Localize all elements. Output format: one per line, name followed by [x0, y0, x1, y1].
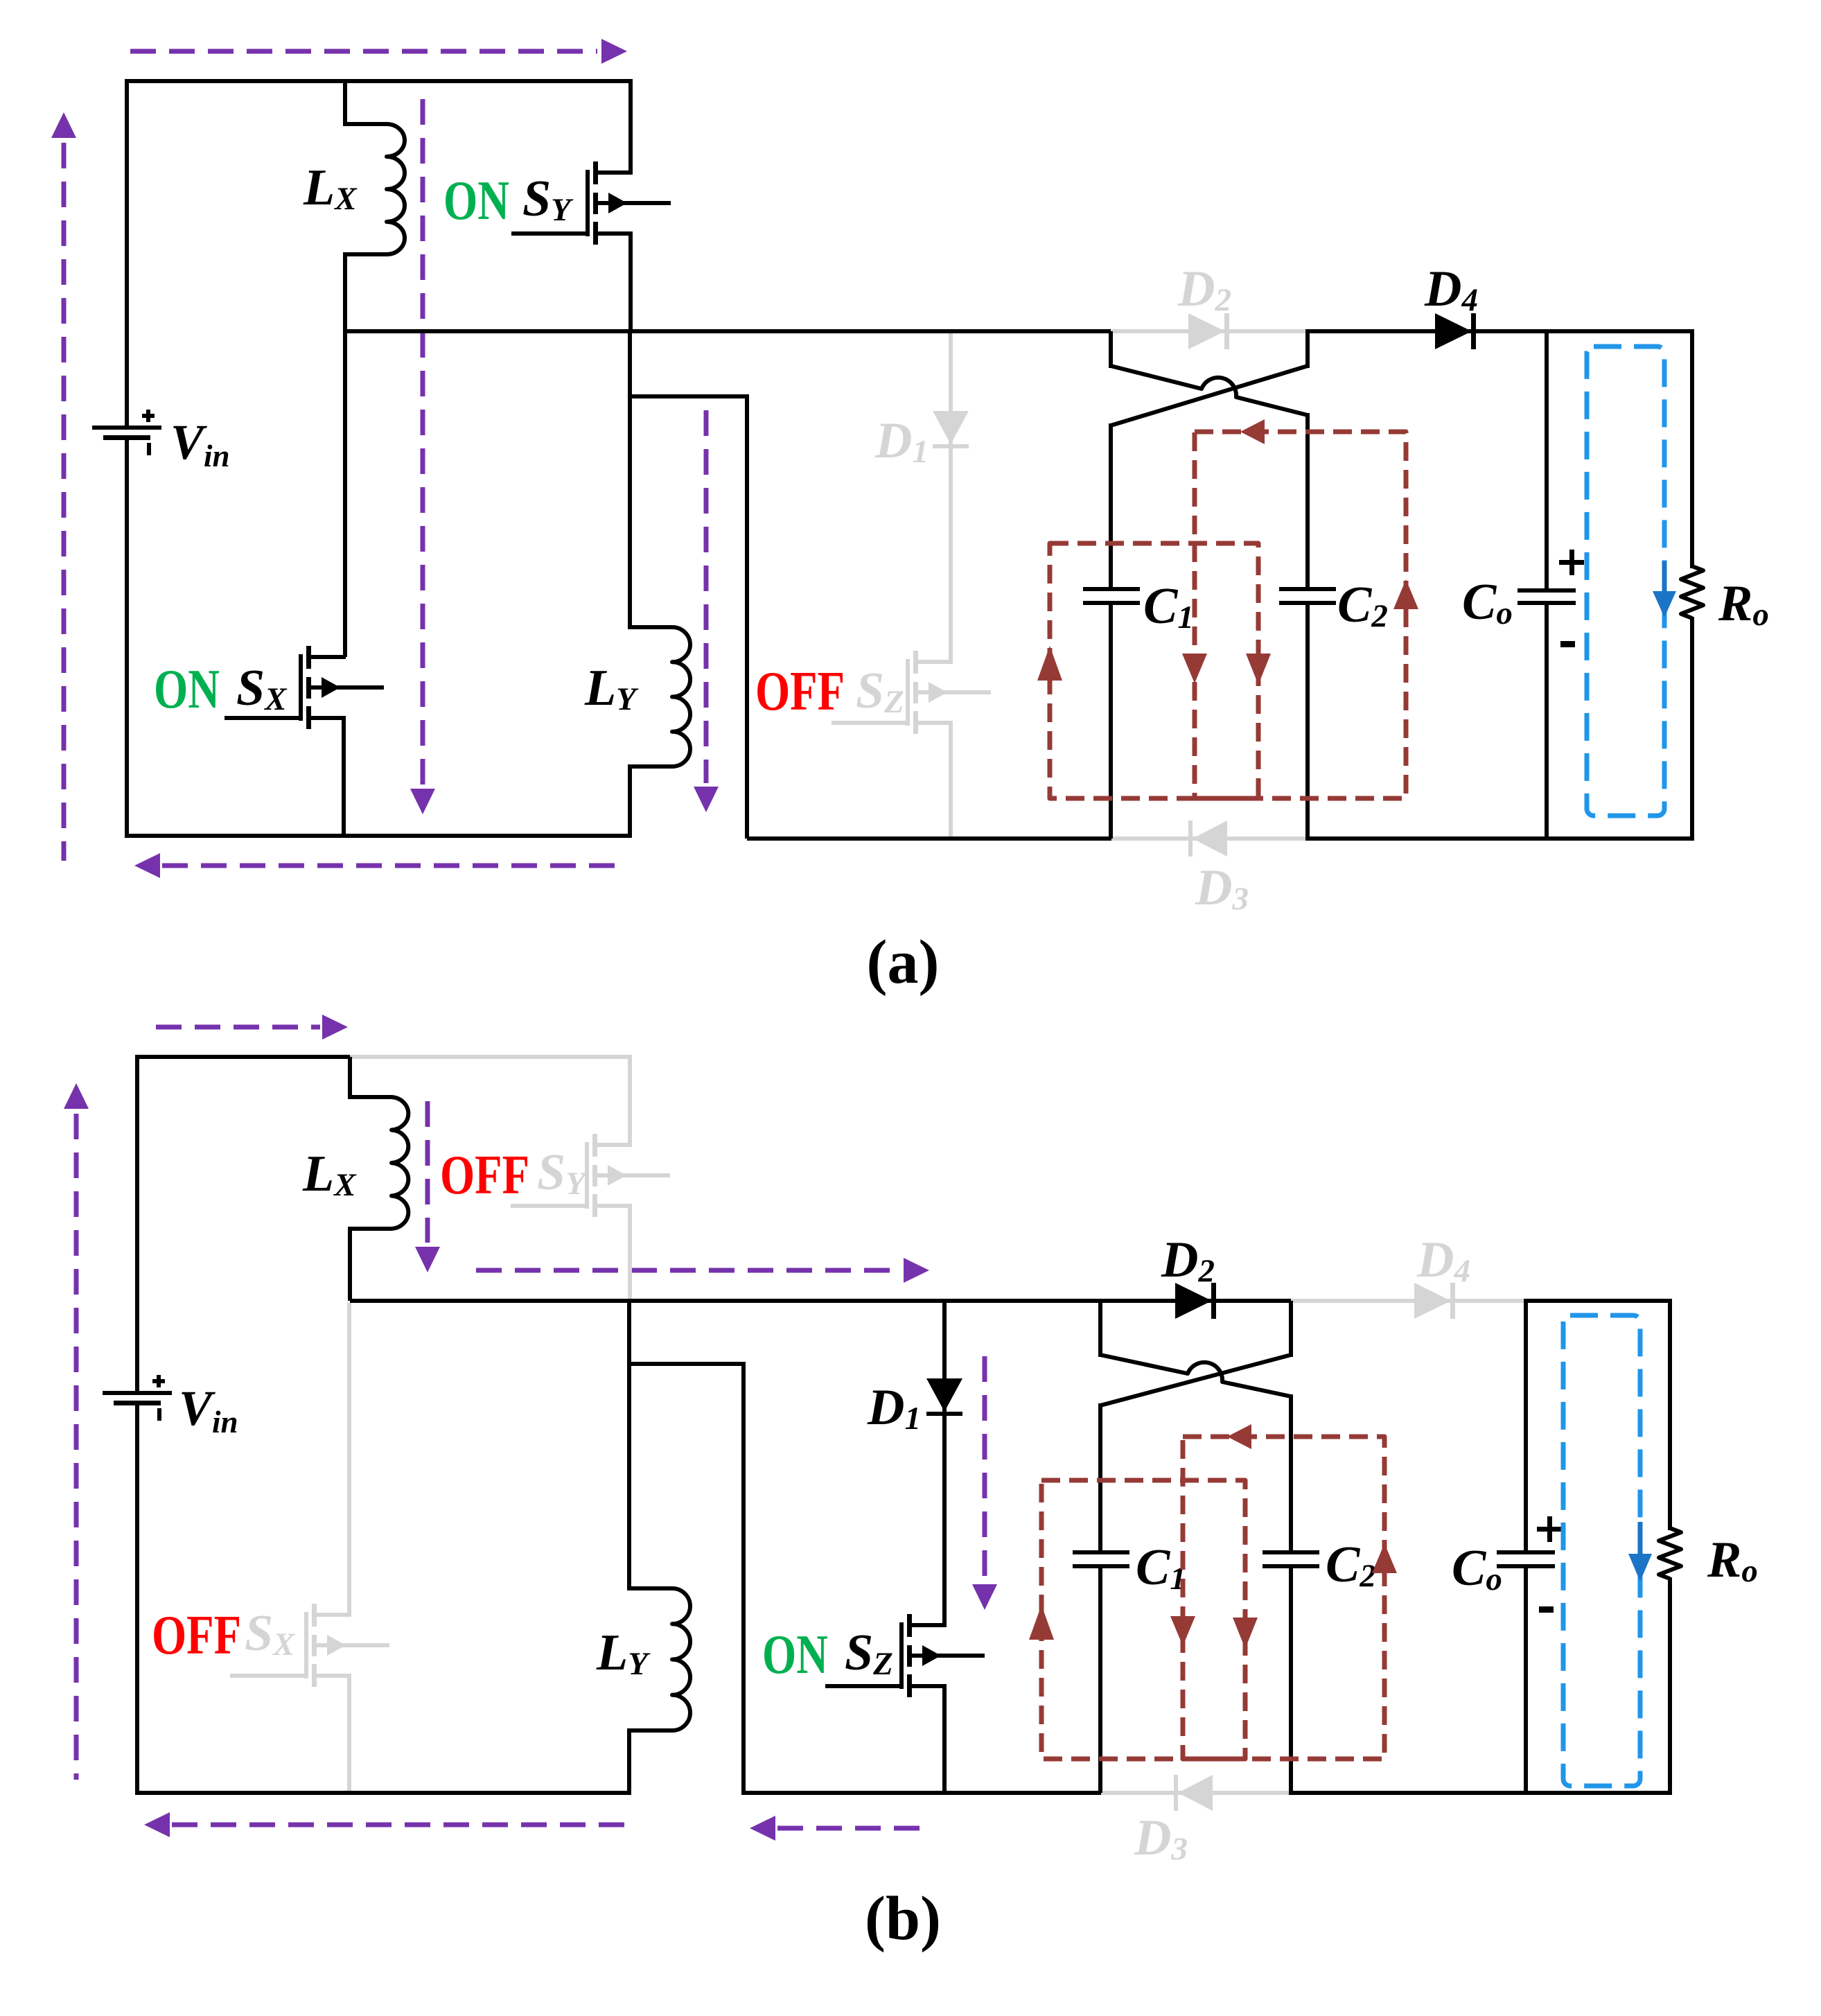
- brown loop C1 up arrow (a): [1037, 646, 1062, 681]
- wire: left rail Vin (a): [125, 79, 129, 430]
- wire: C1 to bottom rail (b): [1098, 1566, 1102, 1793]
- purple flow arrow: bottom return left (b): [144, 1812, 627, 1837]
- wire: bottom rail gray segment D3 (b): [1101, 1791, 1291, 1795]
- wire: left rail Vin (b): [135, 1055, 139, 1395]
- wire: C1 branch upper (b): [1098, 1403, 1102, 1552]
- brown loop C2 left arrow (b): [1227, 1424, 1251, 1449]
- wire: bottom rail gray segment D3 (a): [1111, 836, 1308, 841]
- battery Vin (a): [92, 410, 161, 455]
- wire: branch to Sz section (a): [630, 394, 749, 398]
- wire: top output rail (b): [1524, 1299, 1672, 1303]
- mosfet Sz symbol (b): [825, 1614, 985, 1697]
- diode D3 symbol (b): [1174, 1775, 1213, 1811]
- polarity minus at Co (b): [1539, 1606, 1554, 1613]
- wire: bottom rail right of D3 (b): [1289, 1791, 1672, 1795]
- wire: Co to bottom rail (b): [1524, 1566, 1528, 1793]
- wire: Sy source to mid bus (a): [628, 231, 633, 331]
- purple flow arrow: through Lx (b): [415, 1101, 440, 1272]
- svg-text:ON: ON: [154, 659, 220, 720]
- blue output loop (a): [1587, 347, 1664, 816]
- diode D4 symbol (a): [1435, 313, 1476, 349]
- svg-text:(a): (a): [867, 928, 940, 997]
- brown loop C2 left arrow (a): [1240, 419, 1265, 444]
- wire: C2 branch upper (a): [1305, 413, 1310, 589]
- inductor Lx coil (b): [350, 1097, 408, 1229]
- wire: Lx branch drop from top rail (a): [343, 81, 347, 126]
- capacitor Co plates (a): [1517, 588, 1576, 605]
- brown loop C2 up arrow (b): [1372, 1543, 1397, 1573]
- polarity plus at Co (b): [1537, 1516, 1562, 1542]
- wire: left rail below Vin (a): [125, 437, 129, 838]
- svg-text:OFF: OFF: [152, 1605, 241, 1666]
- wire: Sy drain to top rail (a): [628, 79, 633, 175]
- wire: Sx drain gray to mid bus (b): [347, 1303, 351, 1615]
- wire: mid bus from crossing to output (a): [1305, 329, 1694, 333]
- diode D1 symbol (a): [933, 411, 969, 448]
- wire: crossing diagonal to C1 (a): [1111, 366, 1308, 426]
- purple flow arrow: through D1-Sz (b): [972, 1356, 997, 1610]
- wire: bottom rail left section (b): [135, 1791, 629, 1795]
- wire: top rail from Vin+ to Sy drain (a): [125, 79, 633, 83]
- wire: Sz section left drop (b): [741, 1364, 746, 1795]
- svg-text:OFF: OFF: [440, 1145, 529, 1206]
- polarity minus at Co (a): [1560, 641, 1575, 647]
- wire: Sx source to bottom rail (a): [342, 716, 346, 836]
- capacitor C2 plates (a): [1279, 587, 1336, 605]
- wire: Sy drain gray to top rail (b): [628, 1057, 632, 1147]
- diode D4 symbol (b): [1414, 1283, 1455, 1319]
- wire: C2 to bottom rail (a): [1305, 603, 1310, 839]
- wire: D1 branch gray from bus to Sz (a, off): [949, 333, 953, 664]
- wire: right rail top (a): [1690, 329, 1694, 568]
- wire: top rail from Vin+ to Lx (b): [137, 1055, 352, 1059]
- wire: crossing right vertical top (a): [1305, 331, 1310, 368]
- blue output loop (b): [1563, 1315, 1640, 1786]
- brown loop C1 down arrow (a): [1246, 654, 1271, 685]
- wire: crossing left vertical top (b): [1098, 1301, 1102, 1357]
- wire: Co to bottom rail (a): [1545, 603, 1549, 839]
- wire: crossing diagonal to C2 with hop (b): [1100, 1355, 1291, 1396]
- diode D2 symbol (a): [1188, 313, 1229, 349]
- wire: top rail gray to Sy (b, off): [350, 1055, 632, 1059]
- svg-text:(b): (b): [865, 1884, 941, 1953]
- brown charge loop of C2 (b): [1183, 1437, 1384, 1759]
- mosfet Sz symbol (a): [832, 651, 991, 734]
- wire: Lx to Sx drain (a): [343, 252, 347, 657]
- wire: mid bus gray segment D4 (b): [1291, 1299, 1526, 1303]
- wire: mid bus gray segment D2 (a): [1111, 329, 1308, 333]
- mosfet Sy symbol (b): [511, 1134, 670, 1217]
- wire: bottom rail right section (b): [744, 1791, 1103, 1795]
- resistor Ro zigzag (b): [1659, 1528, 1681, 1579]
- wire: right rail bottom (b): [1668, 1577, 1672, 1795]
- brown loop C2 up arrow (a): [1393, 579, 1418, 609]
- purple flow arrow: top of input loop (a): [130, 39, 627, 64]
- battery Vin symbol (b): [103, 1375, 172, 1421]
- wire: mid bus down to Ly (a): [628, 331, 632, 629]
- brown charge loop of C2 (a): [1195, 432, 1406, 798]
- wire: Sz source to bottom rail gray (a): [949, 721, 953, 839]
- purple flow arrow: through Sx branch (a): [410, 99, 435, 814]
- wire: Ly bottom to rail (a): [628, 764, 632, 838]
- brown loop C2 down arrow (b): [1170, 1616, 1195, 1646]
- wire: C2 branch upper (b): [1289, 1394, 1293, 1552]
- inductor Ly coil (a): [630, 627, 690, 766]
- mosfet Sx symbol (a): [225, 646, 384, 729]
- wire: D1 branch from bus to Sz (b, on): [942, 1301, 947, 1627]
- wire: Lx branch drop from top rail (b): [348, 1057, 352, 1099]
- wire: Sy source gray to mid bus (b): [628, 1204, 632, 1299]
- blue output loop down arrow (a): [1653, 561, 1676, 617]
- wire: Co branch (b): [1524, 1301, 1528, 1554]
- wire: C1 branch upper (a): [1109, 423, 1113, 589]
- blue output loop down arrow (b): [1628, 1522, 1652, 1581]
- purple flow arrow: bottom return (a): [134, 853, 627, 878]
- purple flow arrow: left of input loop (b): [64, 1083, 89, 1780]
- wire: bottom rail left section (a): [125, 834, 630, 838]
- brown loop C1 up arrow (b): [1029, 1605, 1054, 1640]
- polarity plus at Co (a): [1559, 550, 1584, 575]
- inductor Ly coil (b): [629, 1588, 690, 1730]
- wire: crossing diagonal to C2 with hop (a): [1111, 366, 1308, 415]
- mosfet Sy symbol (a): [511, 161, 671, 245]
- wire: Ly bottom to rail (b): [627, 1728, 631, 1795]
- purple flow arrow: through Ly branch (a): [694, 410, 719, 812]
- svg-text:ON: ON: [443, 170, 509, 231]
- wire: Co branch (a): [1545, 331, 1549, 590]
- wire: Lx to mid bus (b): [348, 1227, 352, 1301]
- brown loop C2 down arrow (a): [1182, 654, 1207, 683]
- purple flow arrow: bottom return under Sz (b): [750, 1816, 920, 1841]
- inductor Lx coil (a): [345, 124, 405, 254]
- wire: branch to Sz section (b): [629, 1362, 746, 1366]
- resistor Ro zigzag (a): [1681, 566, 1703, 618]
- capacitor C2 plates (b): [1263, 1550, 1319, 1568]
- svg-text:OFF: OFF: [755, 661, 845, 722]
- diode D3 symbol (a): [1188, 821, 1227, 857]
- wire: bottom rail right of D3 (a): [1305, 836, 1694, 841]
- wire: C1 to bottom rail (a): [1109, 603, 1113, 839]
- wire: mid bus (b): [350, 1299, 1293, 1303]
- wire: crossing diagonal to C1 (b): [1100, 1355, 1291, 1405]
- diode D2 symbol (b): [1175, 1283, 1216, 1319]
- wire: left rail below Vin (b): [135, 1402, 139, 1795]
- brown charge loop of C1 (a): [1050, 543, 1258, 798]
- wire: right rail bottom (a): [1690, 617, 1694, 841]
- purple flow arrow: along mid bus to D1 (b): [476, 1258, 929, 1283]
- wire: Sz source to bottom rail (b): [942, 1684, 947, 1795]
- wire: crossing left vertical top (a): [1109, 331, 1113, 368]
- brown loop C1 down arrow (b): [1233, 1618, 1258, 1649]
- purple flow arrow: top of input loop (b): [156, 1015, 348, 1040]
- mosfet Sx symbol (b): [230, 1604, 389, 1687]
- wire: bottom rail right section (a): [747, 836, 1114, 841]
- diode D1 symbol (b): [926, 1378, 962, 1416]
- wire: mid bus node to crossing (a): [345, 329, 1111, 333]
- wire: Sx source gray to bottom rail (b): [347, 1674, 351, 1791]
- wire: C2 to bottom rail (b): [1289, 1566, 1293, 1793]
- purple flow arrow: left of input loop (a): [51, 112, 76, 861]
- svg-text:ON: ON: [762, 1624, 828, 1685]
- wire: mid bus down to Ly (b): [627, 1301, 631, 1590]
- brown charge loop of C1 (b): [1041, 1480, 1245, 1759]
- capacitor C1 plates (a): [1083, 587, 1140, 605]
- wire: crossing right vertical top (b): [1289, 1301, 1293, 1357]
- capacitor C1 plates (b): [1073, 1550, 1129, 1568]
- wire: Sz section left drop (a): [745, 396, 749, 839]
- capacitor Co plates (b): [1497, 1550, 1555, 1568]
- wire: right rail top (b): [1668, 1299, 1672, 1530]
